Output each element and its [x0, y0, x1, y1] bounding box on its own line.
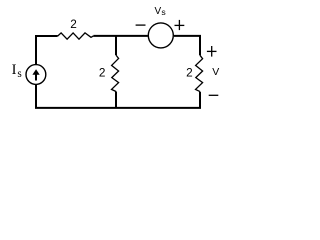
svg-text:2: 2	[70, 17, 77, 31]
svg-text:2: 2	[186, 65, 193, 79]
svg-text:s: s	[161, 7, 166, 17]
svg-text:I: I	[12, 62, 17, 78]
svg-text:s: s	[17, 68, 21, 80]
svg-text:V: V	[212, 66, 219, 78]
svg-text:2: 2	[99, 66, 106, 80]
